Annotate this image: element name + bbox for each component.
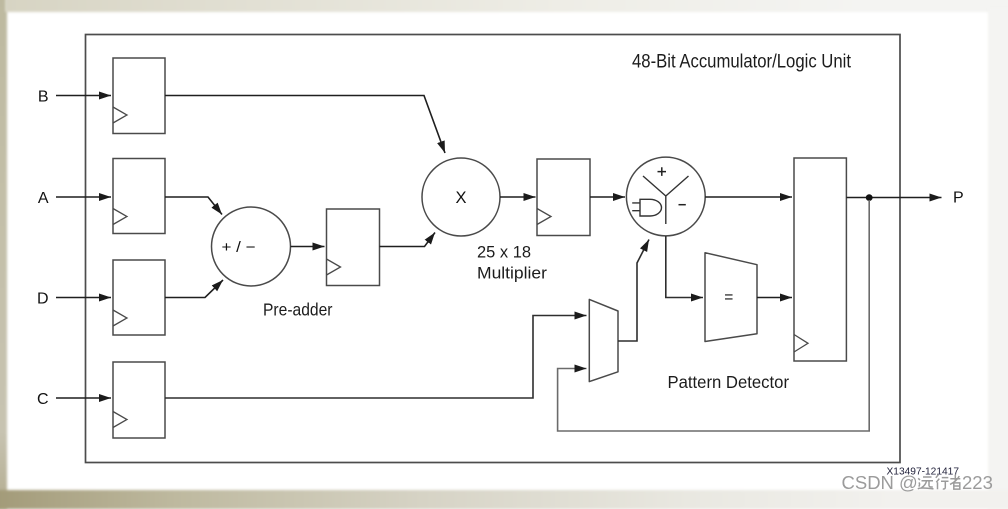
top edge band <box>5 0 1008 12</box>
watermark glyph yuan <box>918 477 934 489</box>
wire P output <box>846 197 941 199</box>
bottom edge band <box>0 490 1008 509</box>
svg-text:CSDN @: CSDN @ <box>842 472 918 493</box>
wire D register to pre-adder <box>165 280 223 298</box>
node C label <box>37 391 49 408</box>
label Pre-adder <box>263 300 333 320</box>
wire C input <box>56 397 111 399</box>
svg-text:25 x 18: 25 x 18 <box>477 243 531 262</box>
register A <box>113 159 165 234</box>
label 25 x 18 Multiplier <box>477 243 547 283</box>
register B <box>113 58 165 134</box>
node A label <box>38 190 49 207</box>
right edge band <box>988 8 1008 509</box>
svg-text:X: X <box>455 189 466 207</box>
outer boundary box 48-bit unit <box>86 35 901 463</box>
mux <box>589 299 618 381</box>
svg-text:+ / −: + / − <box>222 239 256 256</box>
register M <box>537 159 590 236</box>
svg-text:C: C <box>37 391 49 408</box>
wire M register to ALU <box>590 196 625 198</box>
wire B register to multiplier <box>165 96 445 154</box>
watermark glyph zhe <box>950 475 960 490</box>
svg-text:48-Bit Accumulator/Logic Unit: 48-Bit Accumulator/Logic Unit <box>632 52 852 73</box>
register D <box>113 260 165 335</box>
junction dot on P output <box>866 194 873 201</box>
wire pre-adder to AD register <box>291 246 325 248</box>
wire feedback P to mux <box>558 200 870 431</box>
multiplier circle <box>422 158 500 236</box>
wire multiplier to M register <box>500 196 536 198</box>
title label <box>632 52 852 73</box>
ALU circle U1 <box>626 157 705 236</box>
svg-text:=: = <box>724 289 733 306</box>
pre-adder circle <box>212 207 291 286</box>
register AD <box>327 209 380 286</box>
svg-text:D: D <box>37 291 49 308</box>
wire B input <box>56 95 111 97</box>
svg-text:Multiplier: Multiplier <box>477 264 547 283</box>
svg-text:P: P <box>953 190 964 207</box>
node B label <box>38 89 49 106</box>
watermark CSDN <box>842 472 993 493</box>
svg-text:Pattern Detector: Pattern Detector <box>668 372 790 392</box>
wire ALU to comparator <box>666 236 703 298</box>
svg-text:223: 223 <box>962 472 993 493</box>
wire AD register to multiplier <box>380 233 436 247</box>
register C <box>113 362 165 438</box>
svg-text:Pre-adder: Pre-adder <box>263 300 333 320</box>
watermark glyph xing <box>936 475 949 490</box>
svg-text:B: B <box>38 89 49 106</box>
wire ALU to P register <box>705 196 792 198</box>
svg-text:A: A <box>38 190 49 207</box>
wire mux to ALU <box>618 240 649 342</box>
node D label <box>37 291 49 308</box>
wire D input <box>56 297 111 299</box>
wire comparator to P register <box>757 297 792 299</box>
node P label <box>953 190 964 207</box>
wire C register to mux <box>165 316 587 399</box>
left edge band <box>0 0 7 509</box>
wire A register to pre-adder <box>165 197 222 215</box>
label Pattern Detector <box>668 372 790 392</box>
register P <box>794 158 846 361</box>
figure number label X13497-121417 <box>887 466 960 478</box>
wire A input <box>56 196 111 198</box>
comparator <box>705 253 757 342</box>
